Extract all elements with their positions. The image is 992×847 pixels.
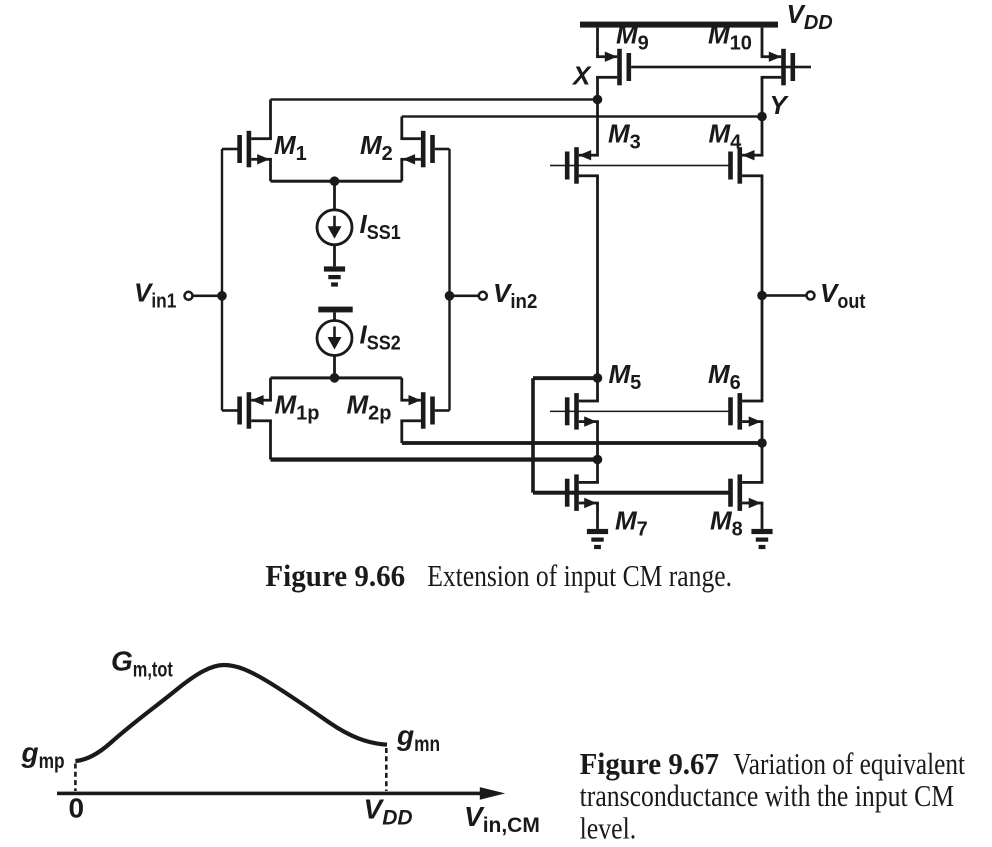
wire	[596, 378, 599, 401]
svg-text:0: 0	[69, 793, 85, 824]
wire	[333, 356, 336, 378]
terminal Vin1	[185, 292, 193, 300]
transistor M2	[400, 131, 434, 168]
power rail VDD	[580, 22, 778, 28]
transistor M6	[728, 393, 763, 430]
wire	[400, 421, 403, 443]
svg-text:Vout: Vout	[820, 278, 866, 313]
svg-text:M6: M6	[708, 359, 741, 394]
label M4	[709, 119, 743, 154]
label VDD axis	[364, 794, 413, 830]
label Vout	[820, 278, 866, 313]
transistor M4	[728, 147, 763, 184]
wire	[531, 378, 535, 493]
wire	[269, 100, 272, 139]
label Vin1	[134, 278, 176, 313]
wire	[435, 409, 450, 412]
curve Gm,tot	[75, 665, 387, 761]
caption figure 9.67	[580, 746, 966, 845]
transistor M1	[237, 131, 272, 168]
ground	[751, 529, 772, 549]
svg-text:M3: M3	[608, 119, 641, 154]
label Vin2	[493, 278, 537, 313]
wire	[450, 295, 479, 298]
transistor M5	[565, 393, 599, 430]
wire	[761, 443, 764, 482]
wire	[596, 503, 599, 529]
wire	[631, 66, 811, 69]
wire	[271, 180, 402, 183]
label M5	[609, 359, 642, 394]
label Gm,tot	[111, 645, 173, 681]
label M9	[616, 20, 649, 55]
node tail1	[330, 176, 340, 186]
node Vin2	[445, 291, 455, 301]
label ISS2	[360, 320, 401, 355]
label M1	[274, 130, 307, 165]
label M2p	[347, 390, 392, 425]
transistor M3	[565, 147, 599, 184]
wire	[761, 422, 764, 443]
transistor M1p	[237, 392, 272, 429]
wire	[193, 295, 223, 298]
wire	[400, 378, 403, 400]
label gmn	[396, 720, 440, 756]
svg-text:Vin,CM: Vin,CM	[464, 801, 540, 837]
node X	[571, 61, 602, 105]
label M1p	[275, 390, 320, 425]
svg-text:X: X	[571, 61, 592, 91]
wire	[550, 165, 731, 167]
ground	[324, 266, 345, 286]
wire	[271, 457, 598, 461]
svg-text:M1p: M1p	[275, 390, 320, 425]
label Vin,CM	[464, 801, 540, 837]
svg-text:Vin1: Vin1	[134, 278, 176, 313]
wire	[550, 411, 729, 413]
wire	[271, 98, 598, 100]
wire	[333, 181, 336, 210]
label M7	[615, 506, 648, 541]
wire	[222, 148, 238, 151]
label M10	[708, 20, 752, 55]
label VDD	[787, 0, 833, 34]
wire	[596, 460, 599, 483]
wire	[533, 376, 598, 380]
current source ISS2	[317, 321, 352, 356]
node C	[757, 438, 767, 448]
dashed line	[385, 748, 388, 791]
svg-text:M2: M2	[360, 130, 393, 165]
wire	[269, 421, 272, 460]
node tail2	[330, 373, 340, 383]
wire	[333, 312, 336, 320]
terminal Vin2	[479, 292, 487, 300]
wire	[269, 159, 272, 181]
svg-text:ISS1: ISS1	[360, 209, 401, 244]
wire	[402, 115, 762, 117]
svg-text:M4: M4	[709, 119, 743, 154]
node Vout	[757, 291, 767, 301]
wire	[221, 149, 223, 411]
wire	[761, 176, 764, 401]
svg-text:M1: M1	[274, 130, 307, 165]
wire	[533, 491, 731, 495]
wire	[596, 100, 599, 156]
wire	[596, 176, 599, 378]
wire	[762, 294, 806, 297]
svg-text:Figure 9.67Variation of equiva: Figure 9.67Variation of equivalenttransc…	[580, 746, 966, 845]
wire	[596, 28, 599, 57]
terminal Vout	[807, 292, 815, 300]
label M3	[608, 119, 641, 154]
label 0	[69, 793, 85, 824]
node Y	[757, 90, 789, 121]
transistor M10	[761, 49, 796, 86]
svg-text:gmn: gmn	[396, 720, 440, 756]
svg-text:M2p: M2p	[347, 390, 392, 425]
caption figure 9.66	[265, 558, 732, 593]
label gmp	[21, 737, 65, 773]
wire	[402, 441, 762, 445]
node Vin1	[217, 291, 227, 301]
svg-text:M7: M7	[615, 506, 648, 541]
wire	[435, 148, 450, 151]
label ISS1	[360, 209, 401, 244]
label M8	[710, 506, 743, 541]
wire	[761, 28, 764, 57]
label M2	[360, 130, 393, 165]
wire	[596, 422, 599, 460]
current source ISS1	[317, 210, 352, 245]
transistor M7	[565, 474, 599, 511]
svg-text:ISS2: ISS2	[360, 320, 401, 355]
svg-text:VDD: VDD	[364, 794, 413, 830]
wire	[269, 378, 272, 400]
transistor M2p	[400, 392, 434, 429]
node B	[593, 455, 603, 465]
svg-text:VDD: VDD	[787, 0, 833, 34]
wire	[271, 376, 402, 379]
wire	[333, 245, 336, 267]
node A	[593, 373, 603, 383]
svg-text:Figure 9.66Extension of input: Figure 9.66Extension of input CM range.	[265, 558, 732, 593]
wire	[761, 503, 764, 529]
svg-text:M5: M5	[609, 359, 642, 394]
wire	[222, 409, 238, 412]
transistor M8	[728, 474, 763, 511]
wire	[596, 77, 599, 99]
svg-text:Gm,tot: Gm,tot	[111, 645, 173, 681]
wire	[448, 149, 450, 411]
wire	[761, 117, 764, 156]
label M6	[708, 359, 741, 394]
wire	[400, 159, 403, 181]
ground	[587, 529, 608, 549]
rail bar	[318, 307, 352, 313]
svg-text:Y: Y	[770, 90, 790, 120]
wire	[761, 77, 764, 116]
dashed line	[74, 764, 77, 792]
transistor M9	[596, 49, 631, 86]
x axis	[57, 787, 505, 800]
svg-text:gmp: gmp	[21, 737, 65, 773]
svg-text:Vin2: Vin2	[493, 278, 537, 313]
wire	[400, 117, 403, 139]
